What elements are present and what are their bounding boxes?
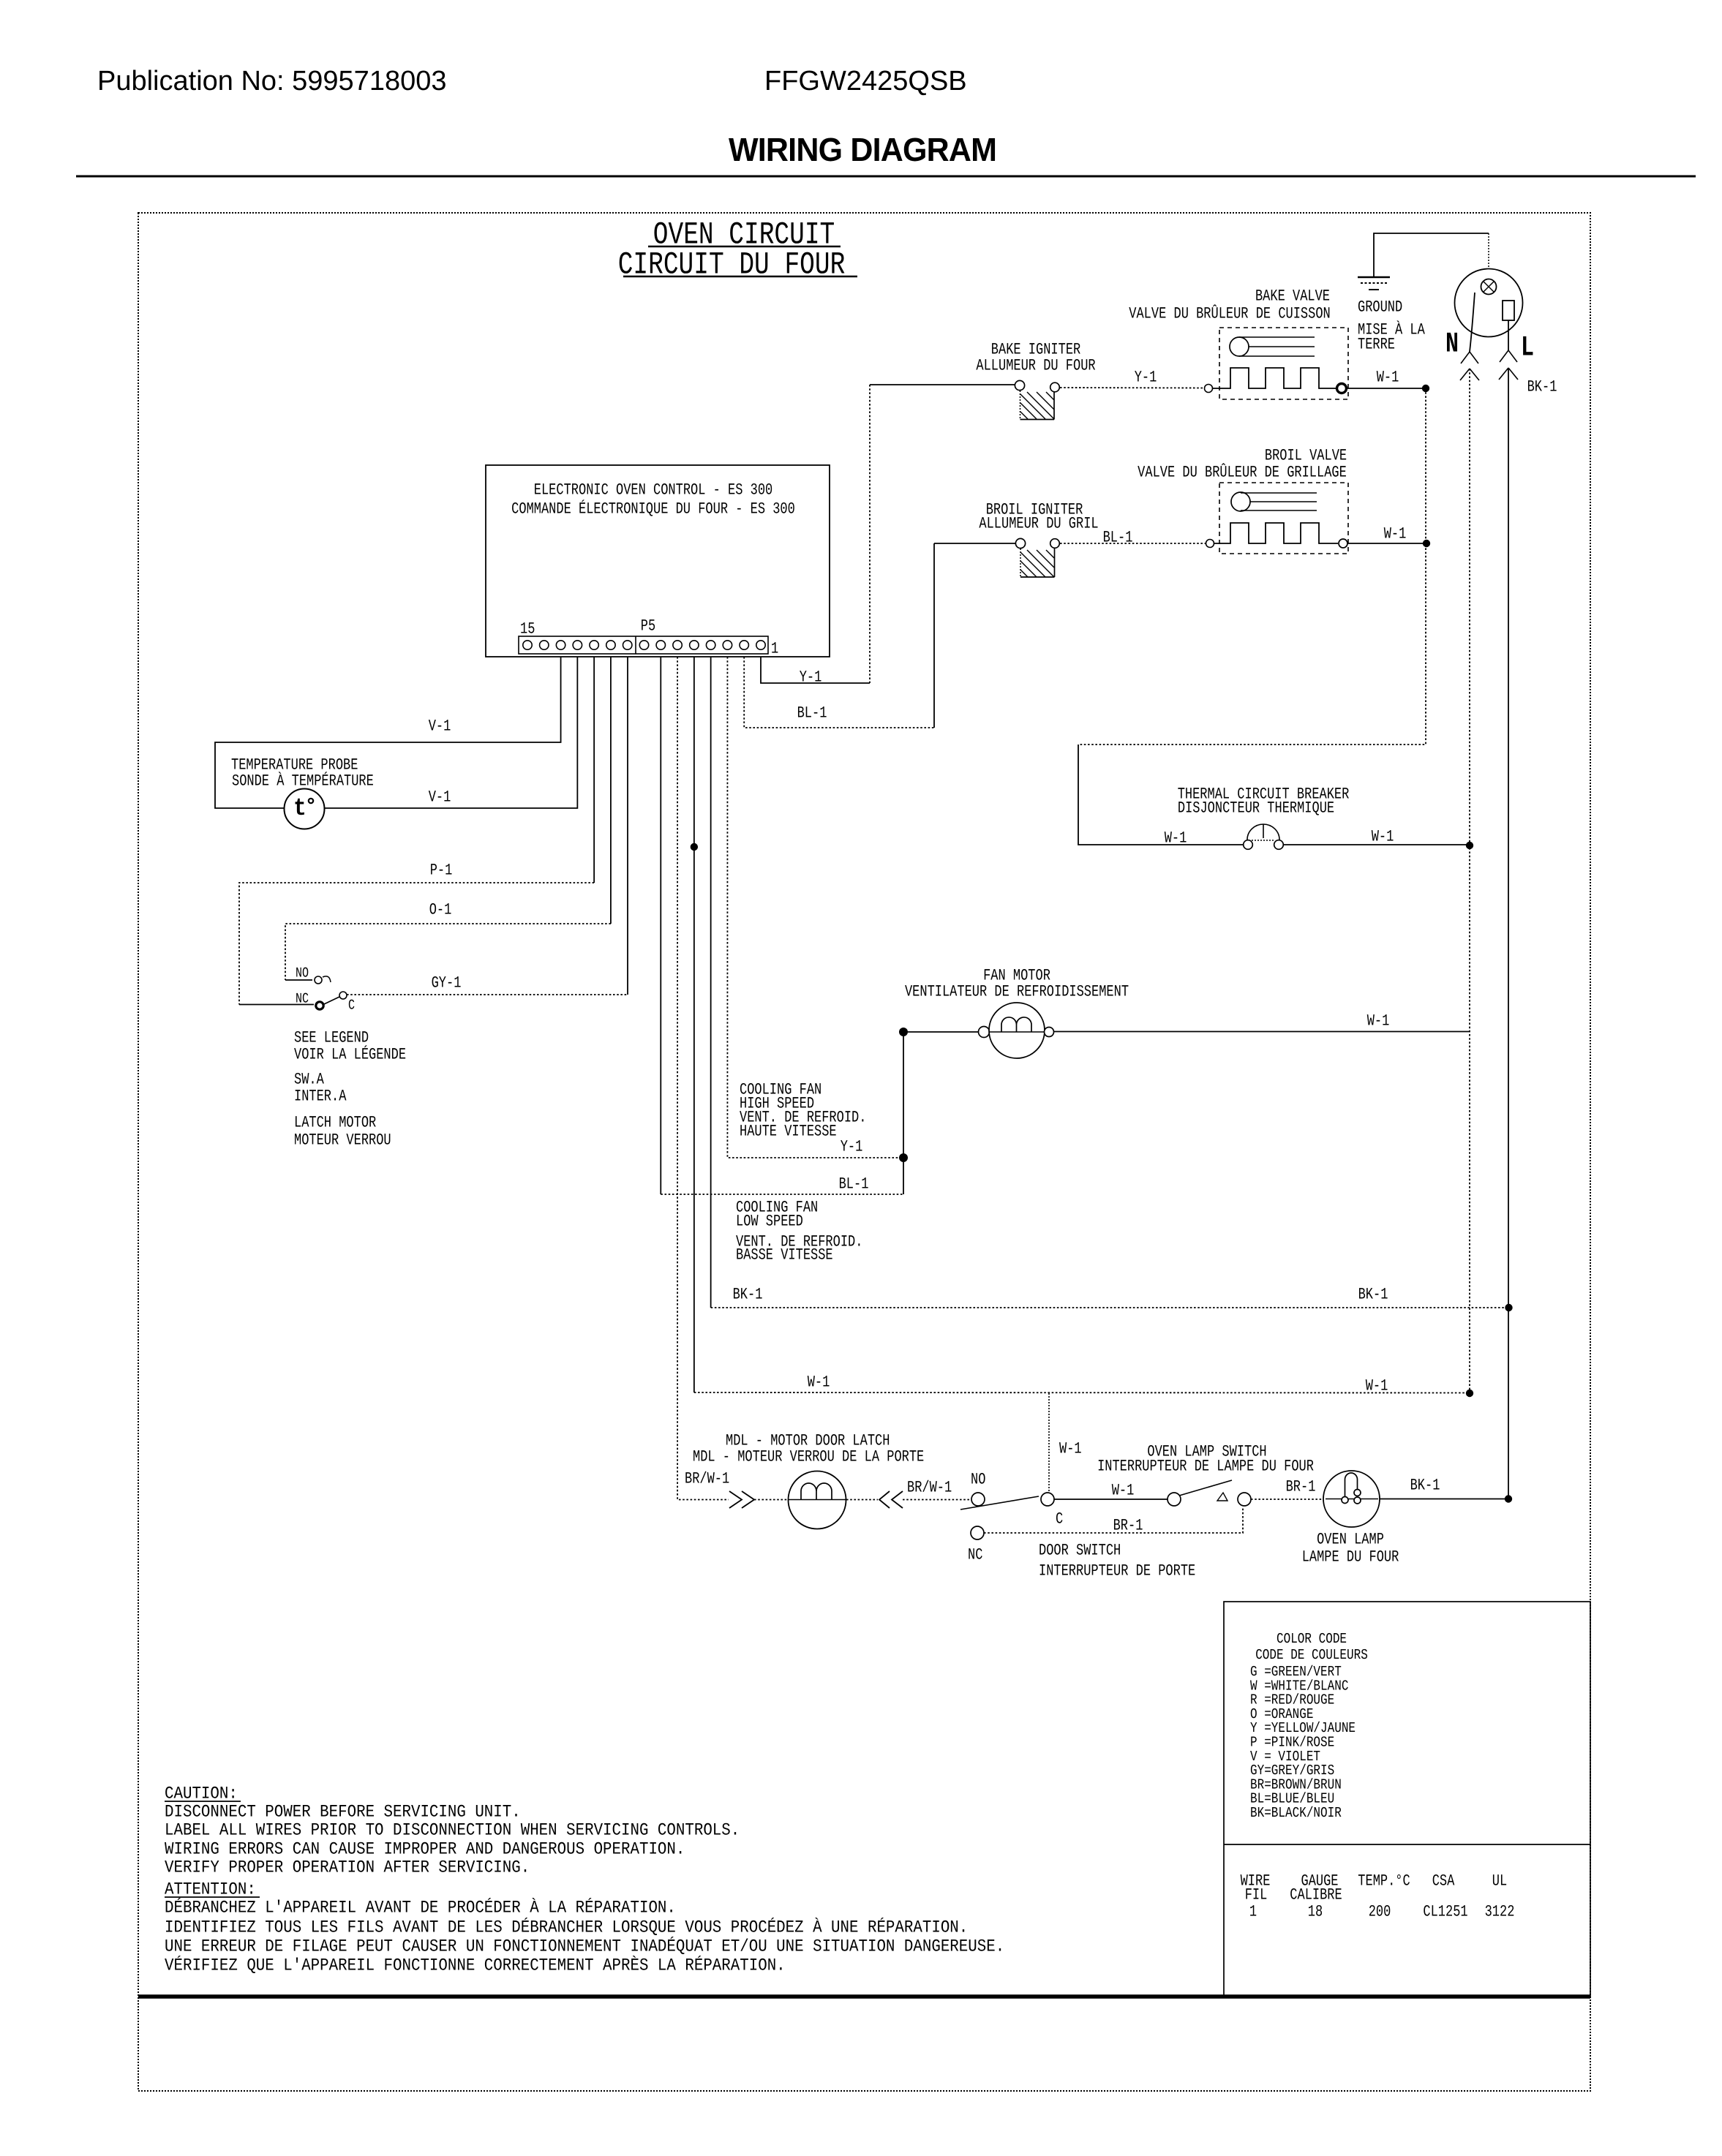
wire arrows to MDL motor bbox=[754, 1499, 789, 1501]
label model FFGW2425QSB bbox=[764, 66, 967, 97]
legend note bbox=[294, 1030, 406, 1150]
svg-text:LAMPE DU FOUR: LAMPE DU FOUR bbox=[1302, 1549, 1399, 1567]
wire breaker to N line bbox=[1283, 844, 1470, 845]
svg-text:P5: P5 bbox=[641, 618, 655, 636]
svg-text:WIRING DIAGRAM: WIRING DIAGRAM bbox=[729, 132, 996, 168]
wire fan node to motor bbox=[908, 1031, 979, 1033]
door switch common terminal bbox=[1041, 1493, 1054, 1506]
svg-text:WIRING ERRORS CAN CAUSE IMPROP: WIRING ERRORS CAN CAUSE IMPROPER AND DAN… bbox=[165, 1840, 685, 1859]
wire plug to ground bbox=[1488, 233, 1489, 269]
svg-text:Y-1: Y-1 bbox=[800, 669, 822, 687]
label motor door latch bbox=[693, 1433, 924, 1466]
label caution block bbox=[165, 1784, 740, 1877]
svg-text:INTERRUPTEUR DE PORTE: INTERRUPTEUR DE PORTE bbox=[1039, 1563, 1195, 1580]
svg-text:NC: NC bbox=[296, 991, 309, 1007]
L plug contact bbox=[1500, 320, 1517, 362]
door switch blade bbox=[960, 1496, 1039, 1509]
svg-text:CSA: CSA bbox=[1432, 1873, 1455, 1891]
junction broil W-1 bbox=[1423, 540, 1430, 547]
svg-text:DISJONCTEUR THERMIQUE: DISJONCTEUR THERMIQUE bbox=[1178, 800, 1334, 818]
label N bbox=[1445, 329, 1459, 361]
svg-text:BR-1: BR-1 bbox=[1113, 1518, 1143, 1535]
wire Y-1 pin3 cooling fan high bbox=[727, 657, 900, 1158]
svg-text:18: 18 bbox=[1308, 1904, 1323, 1921]
wire P-1 pin11 to switch NC bbox=[239, 657, 594, 1005]
svg-text:DISCONNECT POWER BEFORE SERVIC: DISCONNECT POWER BEFORE SERVICING UNIT. bbox=[165, 1803, 521, 1822]
label cooling fan high speed bbox=[740, 1082, 866, 1141]
label BK-1 left bbox=[733, 1286, 763, 1304]
svg-text:VALVE DU BRÛLEUR DE GRILLAGE: VALVE DU BRÛLEUR DE GRILLAGE bbox=[1138, 462, 1347, 482]
svg-text:BROIL VALVE: BROIL VALVE bbox=[1265, 448, 1347, 465]
wire BR-1 NC to lamp switch bbox=[984, 1507, 1243, 1533]
ground symbol bbox=[1358, 277, 1390, 290]
oven lamp switch right terminal bbox=[1238, 1493, 1251, 1506]
label BK-1 plug bbox=[1527, 379, 1557, 396]
oven lamp bbox=[1323, 1471, 1380, 1527]
svg-text:VENTILATEUR DE REFROIDISSEMENT: VENTILATEUR DE REFROIDISSEMENT bbox=[905, 984, 1129, 1001]
junction breaker W-1 at N bbox=[1466, 842, 1473, 849]
svg-text:COMMANDE ÉLECTRONIQUE DU FOUR: COMMANDE ÉLECTRONIQUE DU FOUR - ES 300 bbox=[511, 499, 795, 519]
label NO door switch bbox=[971, 1471, 985, 1489]
svg-text:SONDE À TEMPÉRATURE: SONDE À TEMPÉRATURE bbox=[232, 771, 374, 791]
label L bbox=[1521, 333, 1534, 365]
label WIRING DIAGRAM title bbox=[729, 132, 996, 168]
label C door switch bbox=[1056, 1511, 1063, 1529]
MDL connector arrows left bbox=[729, 1491, 754, 1508]
wire L conductor bbox=[1508, 368, 1509, 1499]
wire W-1 bus down bbox=[1078, 388, 1426, 845]
supply plug bbox=[1455, 269, 1523, 337]
svg-text:1: 1 bbox=[771, 641, 778, 658]
label OVEN CIRCUIT title bbox=[618, 217, 857, 283]
label fan motor bbox=[905, 968, 1129, 1001]
svg-text:COLOR CODE: COLOR CODE bbox=[1277, 1631, 1347, 1647]
door switch NO terminal bbox=[971, 1493, 985, 1506]
label BK-1 lamp bbox=[1410, 1477, 1440, 1495]
label W-1 breaker left bbox=[1165, 830, 1187, 848]
color code box bbox=[1224, 1602, 1590, 1997]
label W-1 long right bbox=[1366, 1378, 1388, 1395]
wire GY-1 common to pin9 bbox=[347, 657, 628, 995]
junction bake W-1 bbox=[1422, 385, 1429, 392]
wire V-1 pin13 to probe left bbox=[215, 657, 561, 808]
label NC contact bbox=[296, 991, 309, 1007]
svg-text:BK-1: BK-1 bbox=[1410, 1477, 1440, 1495]
svg-text:BK-1: BK-1 bbox=[1527, 379, 1557, 396]
broil valve element bbox=[1206, 523, 1348, 548]
svg-text:UNE ERREUR DE FILAGE PEUT CAUS: UNE ERREUR DE FILAGE PEUT CAUSER UN FONC… bbox=[165, 1936, 1004, 1956]
label W-1 broil bbox=[1384, 526, 1407, 543]
svg-text:FFGW2425QSB: FFGW2425QSB bbox=[764, 66, 967, 97]
switch SW.A common terminal bbox=[339, 992, 347, 999]
wire broil valve W-1 to bus bbox=[1347, 543, 1424, 544]
label BL-1 low speed bbox=[839, 1176, 869, 1194]
svg-text:IDENTIFIEZ TOUS LES FILS AVANT: IDENTIFIEZ TOUS LES FILS AVANT DE LES DÉ… bbox=[165, 1917, 968, 1937]
svg-text:GROUND: GROUND bbox=[1358, 299, 1402, 317]
svg-text:BASSE VITESSE: BASSE VITESSE bbox=[736, 1247, 833, 1264]
label BK-1 right bbox=[1358, 1286, 1388, 1304]
wire fan motor W-1 to N bbox=[1054, 1031, 1470, 1033]
label BR-1 lamp bbox=[1286, 1479, 1316, 1496]
svg-text:MDL - MOTOR DOOR LATCH: MDL - MOTOR DOOR LATCH bbox=[726, 1433, 890, 1450]
label V-1 lower bbox=[429, 789, 451, 807]
label BR/W-1 right bbox=[907, 1480, 952, 1497]
wire fan node vertical bbox=[903, 1032, 904, 1194]
wire broil igniter to broil valve bbox=[1060, 543, 1206, 544]
label broil igniter bbox=[979, 502, 1098, 533]
svg-text:LABEL ALL WIRES PRIOR TO DISCO: LABEL ALL WIRES PRIOR TO DISCONNECTION W… bbox=[165, 1821, 740, 1840]
svg-text:BR/W-1: BR/W-1 bbox=[907, 1480, 952, 1497]
label W-1 long left bbox=[808, 1374, 830, 1392]
svg-text:BL-1: BL-1 bbox=[797, 705, 827, 723]
svg-text:HAUTE VITESSE: HAUTE VITESSE bbox=[740, 1123, 837, 1141]
svg-text:W-1: W-1 bbox=[1372, 829, 1394, 846]
svg-text:TEMPERATURE PROBE: TEMPERATURE PROBE bbox=[231, 757, 358, 774]
svg-text:BR-1: BR-1 bbox=[1286, 1479, 1316, 1496]
svg-text:DOOR SWITCH: DOOR SWITCH bbox=[1039, 1542, 1121, 1560]
svg-text:NC: NC bbox=[968, 1547, 982, 1564]
switch SW.A NO contact bbox=[315, 976, 331, 984]
svg-text:ALLUMEUR DU GRIL: ALLUMEUR DU GRIL bbox=[979, 516, 1098, 533]
fan motor bbox=[979, 1003, 1054, 1058]
wire bake valve W-1 to bus bbox=[1347, 388, 1424, 389]
svg-text:ALLUMEUR DU FOUR: ALLUMEUR DU FOUR bbox=[976, 358, 1095, 375]
label O-1 bbox=[429, 902, 452, 919]
label bake valve bbox=[1129, 288, 1330, 323]
MDL motor bbox=[789, 1471, 847, 1529]
junction fan node Y-1 bbox=[899, 1153, 908, 1162]
L conductor arrow bbox=[1499, 368, 1518, 380]
wire O-1 pin10 to switch NO bbox=[285, 657, 611, 980]
svg-text:t: t bbox=[293, 794, 306, 822]
broil valve coil bbox=[1231, 492, 1317, 511]
junction W-1 pin5 bbox=[691, 843, 698, 851]
connector P5 on EOC bbox=[519, 636, 768, 654]
svg-text:O-1: O-1 bbox=[429, 902, 452, 919]
svg-text:VÉRIFIEZ QUE L'APPAREIL FONCTI: VÉRIFIEZ QUE L'APPAREIL FONCTIONNE CORRE… bbox=[165, 1955, 786, 1975]
label W-1 lamp switch bbox=[1112, 1482, 1135, 1500]
svg-text:BL-1: BL-1 bbox=[1103, 529, 1133, 547]
svg-text:TEMP.°C: TEMP.°C bbox=[1358, 1873, 1410, 1891]
label color code heading bbox=[1255, 1631, 1368, 1663]
label BR/W-1 left bbox=[685, 1471, 729, 1488]
svg-text:1: 1 bbox=[1249, 1904, 1257, 1921]
svg-text:W-1: W-1 bbox=[1377, 369, 1399, 387]
wire bake igniter to bake valve bbox=[1060, 387, 1204, 389]
svg-text:SEE LEGEND: SEE LEGEND bbox=[294, 1030, 369, 1047]
svg-text:OVEN LAMP: OVEN LAMP bbox=[1317, 1531, 1384, 1549]
svg-text:LATCH MOTOR: LATCH MOTOR bbox=[294, 1115, 376, 1132]
bake valve coil bbox=[1230, 337, 1315, 356]
svg-text:BR/W-1: BR/W-1 bbox=[685, 1471, 729, 1488]
label W-1 bake bbox=[1377, 369, 1399, 387]
svg-text:W-1: W-1 bbox=[1384, 526, 1407, 543]
svg-text:FIL: FIL bbox=[1245, 1887, 1268, 1904]
label ground bbox=[1358, 299, 1426, 354]
switch SW.A NC contact bbox=[316, 1002, 323, 1009]
label temperature probe bbox=[231, 757, 374, 791]
svg-text:3122: 3122 bbox=[1485, 1904, 1515, 1921]
switch SW.A blade bbox=[324, 997, 339, 1004]
svg-text:Y-1: Y-1 bbox=[841, 1139, 863, 1156]
wire door switch common to lamp switch bbox=[1054, 1499, 1168, 1500]
label wire table row bbox=[1249, 1904, 1515, 1921]
label wire table header bbox=[1241, 1873, 1508, 1904]
svg-text:W-1: W-1 bbox=[1367, 1013, 1390, 1030]
svg-text:INTER.A: INTER.A bbox=[294, 1088, 347, 1106]
svg-text:CODE DE COULEURS: CODE DE COULEURS bbox=[1255, 1647, 1368, 1663]
svg-text:L: L bbox=[1521, 333, 1534, 365]
label W-1 door switch bbox=[1059, 1441, 1082, 1458]
label NC door switch bbox=[968, 1547, 982, 1564]
svg-text:200: 200 bbox=[1369, 1904, 1391, 1921]
svg-text:W-1: W-1 bbox=[1112, 1482, 1135, 1500]
label Y-1 pin1 bbox=[800, 669, 822, 687]
svg-text:C: C bbox=[1056, 1511, 1063, 1529]
label cooling fan low speed bbox=[736, 1199, 862, 1264]
svg-text:Publication No: 5995718003: Publication No: 5995718003 bbox=[97, 66, 447, 97]
svg-text:UL: UL bbox=[1492, 1873, 1507, 1891]
svg-text:SW.A: SW.A bbox=[294, 1071, 325, 1089]
svg-text:W-1: W-1 bbox=[808, 1374, 830, 1392]
svg-text:FAN MOTOR: FAN MOTOR bbox=[983, 968, 1050, 985]
temperature probe sensor t bbox=[285, 789, 325, 829]
svg-text:ELECTRONIC OVEN CONTROL - ES 3: ELECTRONIC OVEN CONTROL - ES 300 bbox=[534, 482, 772, 500]
svg-text:GY-1: GY-1 bbox=[432, 975, 462, 992]
oven lamp switch blade bbox=[1179, 1480, 1232, 1496]
svg-text:V-1: V-1 bbox=[429, 789, 451, 807]
label BL-1 pin2 bbox=[797, 705, 827, 723]
svg-text:W-1: W-1 bbox=[1059, 1441, 1082, 1458]
diagram border frame bbox=[138, 213, 1590, 2091]
wire MDL motor to arrows bbox=[846, 1499, 878, 1501]
wire W-1 pin5 to N bbox=[694, 657, 1466, 1393]
wire probe right to pin12 V-1 bbox=[324, 657, 577, 808]
wire BL-1 pin7 cooling fan low bbox=[661, 657, 903, 1194]
junction fan node top bbox=[899, 1028, 908, 1036]
bottom separator band bbox=[138, 1994, 1590, 1999]
svg-text:MDL - MOTEUR VERROU DE LA PORT: MDL - MOTEUR VERROU DE LA PORTE bbox=[693, 1449, 924, 1466]
label P5 bbox=[641, 618, 655, 636]
label color code list bbox=[1250, 1664, 1356, 1821]
svg-text:CIRCUIT DU FOUR: CIRCUIT DU FOUR bbox=[618, 247, 846, 283]
oven lamp switch left terminal bbox=[1168, 1493, 1181, 1506]
label pin 15 bbox=[520, 621, 535, 638]
svg-text:BK-1: BK-1 bbox=[1358, 1286, 1388, 1304]
label GY-1 bbox=[432, 975, 462, 992]
broil igniter bbox=[1015, 538, 1059, 577]
label Y-1 bake bbox=[1135, 369, 1157, 387]
bake igniter bbox=[1015, 380, 1059, 419]
svg-text:LOW SPEED: LOW SPEED bbox=[736, 1213, 803, 1231]
N plug contact bbox=[1461, 293, 1478, 363]
svg-text:Y-1: Y-1 bbox=[1135, 369, 1157, 387]
label BL-1 broil bbox=[1103, 529, 1133, 547]
svg-text:V-1: V-1 bbox=[429, 718, 451, 736]
wire N conductor bbox=[1469, 369, 1470, 1393]
svg-text:P-1: P-1 bbox=[430, 862, 453, 880]
N conductor arrow bbox=[1460, 369, 1479, 380]
junction W-1 at N bbox=[1466, 1390, 1473, 1397]
svg-text:NO: NO bbox=[971, 1471, 985, 1489]
wire W-1 junction to door switch common bbox=[1048, 1393, 1050, 1493]
svg-text:15: 15 bbox=[520, 621, 535, 638]
wire BK-1 pin4 to L bbox=[711, 657, 1505, 1308]
wire BL-1 pin2 to broil igniter bbox=[744, 543, 1015, 728]
wire Y-1 pin1 to bake igniter bbox=[761, 385, 1015, 683]
svg-text:W-1: W-1 bbox=[1165, 830, 1187, 848]
svg-text:BK=BLACK/NOIR: BK=BLACK/NOIR bbox=[1250, 1805, 1342, 1821]
label broil valve bbox=[1138, 448, 1347, 482]
svg-text:BAKE IGNITER: BAKE IGNITER bbox=[991, 342, 1080, 359]
svg-text:W-1: W-1 bbox=[1366, 1378, 1388, 1395]
label BR-1 door bbox=[1113, 1518, 1143, 1535]
wire arrows to door switch NO bbox=[903, 1499, 971, 1501]
svg-text:CALIBRE: CALIBRE bbox=[1290, 1887, 1342, 1904]
junction BK-1 at L bbox=[1505, 1304, 1512, 1311]
label W-1 breaker right bbox=[1372, 829, 1394, 846]
svg-text:INTERRUPTEUR DE LAMPE DU FOUR: INTERRUPTEUR DE LAMPE DU FOUR bbox=[1097, 1458, 1314, 1476]
bake valve element bbox=[1205, 368, 1347, 393]
label Y-1 high speed bbox=[841, 1139, 863, 1156]
svg-text:NO: NO bbox=[296, 965, 309, 981]
svg-text:VALVE DU BRÛLEUR DE CUISSON: VALVE DU BRÛLEUR DE CUISSON bbox=[1129, 304, 1330, 323]
wire pin6 to MDL bbox=[677, 657, 729, 1500]
MDL connector arrows right bbox=[879, 1491, 903, 1508]
wire BR-1 lamp switch to lamp bbox=[1251, 1499, 1323, 1500]
svg-text:VOIR LA LÉGENDE: VOIR LA LÉGENDE bbox=[294, 1044, 406, 1064]
label bake igniter bbox=[976, 342, 1095, 375]
label publication number bbox=[97, 66, 447, 97]
label attention block bbox=[165, 1880, 1004, 1975]
label V-1 upper bbox=[429, 718, 451, 736]
bake valve box bbox=[1219, 328, 1348, 399]
label oven lamp switch bbox=[1097, 1444, 1314, 1476]
label thermal circuit breaker bbox=[1178, 786, 1350, 818]
svg-text:BK-1: BK-1 bbox=[733, 1286, 763, 1304]
svg-text:TERRE: TERRE bbox=[1358, 336, 1395, 354]
junction lamp BK-1 at L bbox=[1505, 1495, 1512, 1502]
label P-1 bbox=[430, 862, 453, 880]
svg-text:VERIFY PROPER OPERATION AFTER: VERIFY PROPER OPERATION AFTER SERVICING. bbox=[165, 1858, 530, 1877]
svg-text:BL-1: BL-1 bbox=[839, 1176, 869, 1194]
svg-text:CL1251: CL1251 bbox=[1423, 1904, 1467, 1921]
label C common bbox=[348, 998, 355, 1014]
oven lamp switch contact triangle bbox=[1217, 1493, 1227, 1501]
header rule bbox=[76, 176, 1696, 178]
thermal circuit breaker bbox=[1244, 824, 1284, 849]
svg-text:N: N bbox=[1445, 329, 1459, 361]
wire BK-1 lamp to L bbox=[1380, 1499, 1505, 1500]
door switch NC terminal bbox=[971, 1526, 984, 1539]
electronic oven control ES300 box bbox=[486, 465, 830, 657]
label W-1 fan bbox=[1367, 1013, 1390, 1030]
svg-text:DÉBRANCHEZ L'APPAREIL AVANT DE: DÉBRANCHEZ L'APPAREIL AVANT DE PROCÉDER … bbox=[165, 1897, 676, 1918]
label pin 1 bbox=[771, 641, 778, 658]
svg-text:BAKE VALVE: BAKE VALVE bbox=[1255, 288, 1330, 306]
broil valve box bbox=[1219, 483, 1348, 554]
label door switch bbox=[1039, 1542, 1195, 1580]
svg-text:MOTEUR VERROU: MOTEUR VERROU bbox=[294, 1132, 391, 1150]
label oven lamp bbox=[1302, 1531, 1399, 1567]
svg-text:C: C bbox=[348, 998, 355, 1014]
wire ground run bbox=[1374, 233, 1489, 277]
label NO contact bbox=[296, 965, 309, 981]
